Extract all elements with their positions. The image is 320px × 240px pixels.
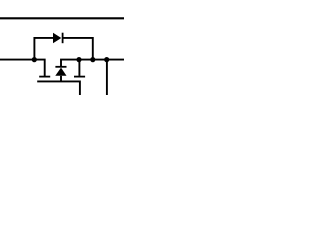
diode D1 cathode bar [62,33,64,44]
node D junction dot [104,57,109,62]
wire: bottom-right rail with corner down to body diode [60,60,124,66]
wire: rightmost vertical down to bottom edge [106,60,108,95]
node A junction dot [32,57,37,62]
body diode D2 (pointing up) [55,68,66,76]
node C junction dot [90,57,95,62]
wire: diode branch right segment and corner down to node C [63,38,93,60]
transistor Q1 gate bar [39,76,50,78]
wire: source lead from node B down [78,60,80,76]
wire: bottom-left rail turning down into gate lead [0,60,45,77]
wire: body diode anode lead down to channel bar [60,76,62,82]
transistor Q1 source contact bar [74,76,85,78]
transistor Q1 channel bar with drain lead going down [37,81,80,95]
wire: diode branch left corner down to node A [34,38,53,60]
body diode D2 cathode bar [55,66,66,68]
node B junction dot [76,57,81,62]
wire: top horizontal rail [0,17,124,19]
diode D1 (on horizontal branch, pointing right) [53,33,61,44]
